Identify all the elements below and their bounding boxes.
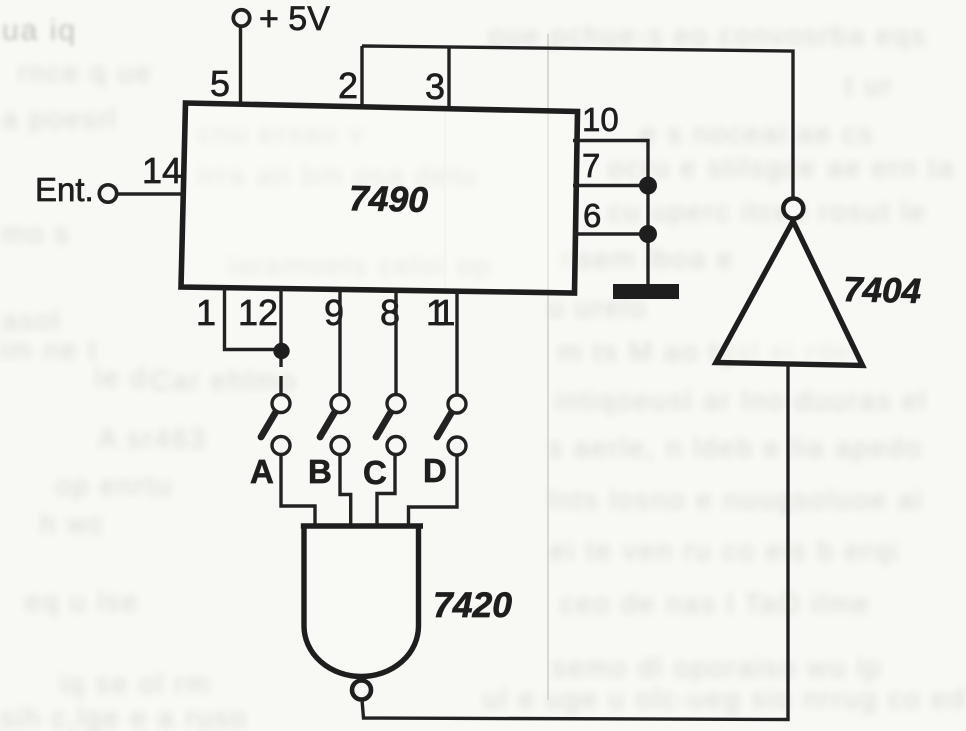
inverter bubble 7404 xyxy=(783,199,803,219)
wire feedback top from pin2 to inverter output xyxy=(362,46,793,200)
svg-text:2: 2 xyxy=(338,65,358,106)
wire pin7 stub xyxy=(573,184,648,187)
svg-text:7420: 7420 xyxy=(433,585,512,625)
svg-text:7: 7 xyxy=(582,147,600,184)
wire pin11 down to switch D xyxy=(455,291,458,396)
junction dot pin7 xyxy=(639,177,657,195)
wire pin1 xyxy=(225,288,282,350)
svg-text:Ent.: Ent. xyxy=(35,171,94,208)
wire pin3 up xyxy=(447,47,450,110)
terminal +5V xyxy=(233,0,330,38)
inverter U3 7404 triangle xyxy=(716,221,863,366)
switch B xyxy=(320,395,349,455)
svg-text:12: 12 xyxy=(238,292,278,333)
wire pin2 up xyxy=(360,46,363,108)
svg-text:10: 10 xyxy=(582,101,619,138)
terminal Ent. xyxy=(35,171,117,208)
faint page crease line center xyxy=(547,34,549,700)
wire 7420 output to inverter input xyxy=(362,364,788,720)
output bubble 7420 xyxy=(352,681,371,700)
wire switch B to gate input xyxy=(340,454,351,526)
switch D xyxy=(437,395,466,455)
wire pin6 stub xyxy=(573,232,648,235)
wire switch D to gate input xyxy=(409,455,458,526)
wire pin9 down to switch B xyxy=(338,289,341,395)
svg-text:A: A xyxy=(250,453,274,490)
svg-text:14: 14 xyxy=(142,150,182,191)
wire switch A to gate input xyxy=(281,454,315,526)
svg-text:3: 3 xyxy=(425,66,445,107)
svg-text:B: B xyxy=(308,453,332,490)
wire pin14 xyxy=(117,192,185,195)
switch C xyxy=(376,395,405,455)
switch A xyxy=(261,395,290,455)
svg-text:D: D xyxy=(423,452,447,489)
wire pin10 stub xyxy=(573,141,648,285)
svg-text:C: C xyxy=(363,454,387,491)
faint page crease line left xyxy=(444,112,446,290)
bleed-through background text layer xyxy=(2,14,77,48)
svg-text:11: 11 xyxy=(426,292,454,333)
junction dot pins 1-12 xyxy=(273,343,289,359)
svg-text:1: 1 xyxy=(196,292,216,333)
wire pin5 to +5V xyxy=(239,27,242,106)
svg-text:6: 6 xyxy=(583,197,601,234)
junction dot pin6 xyxy=(639,225,657,243)
wire switch C to gate input xyxy=(377,454,395,526)
wire pin12 down to switch A xyxy=(279,289,282,396)
ground xyxy=(613,284,679,299)
svg-text:7490: 7490 xyxy=(349,178,429,220)
gate U2 7420 NAND body xyxy=(304,526,419,677)
svg-text:5: 5 xyxy=(210,63,230,104)
IC U1 7490 xyxy=(181,103,578,293)
svg-text:+ 5V: + 5V xyxy=(259,0,330,38)
gate top bar xyxy=(301,523,423,528)
svg-text:7404: 7404 xyxy=(843,270,922,311)
wire pin8 down to switch C xyxy=(394,290,397,395)
